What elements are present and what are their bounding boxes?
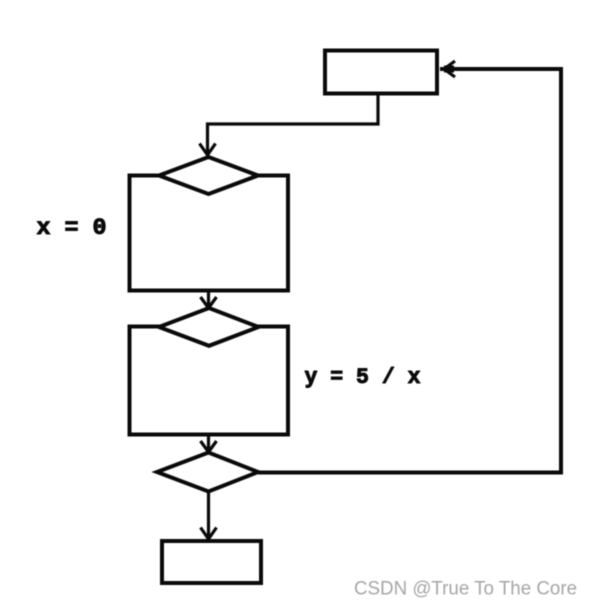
svg-text:x = 0: x = 0 <box>37 215 107 241</box>
svg-text:y = 5 / x: y = 5 / x <box>305 365 421 390</box>
svg-text:CSDN @True To The Core: CSDN @True To The Core <box>354 579 577 600</box>
